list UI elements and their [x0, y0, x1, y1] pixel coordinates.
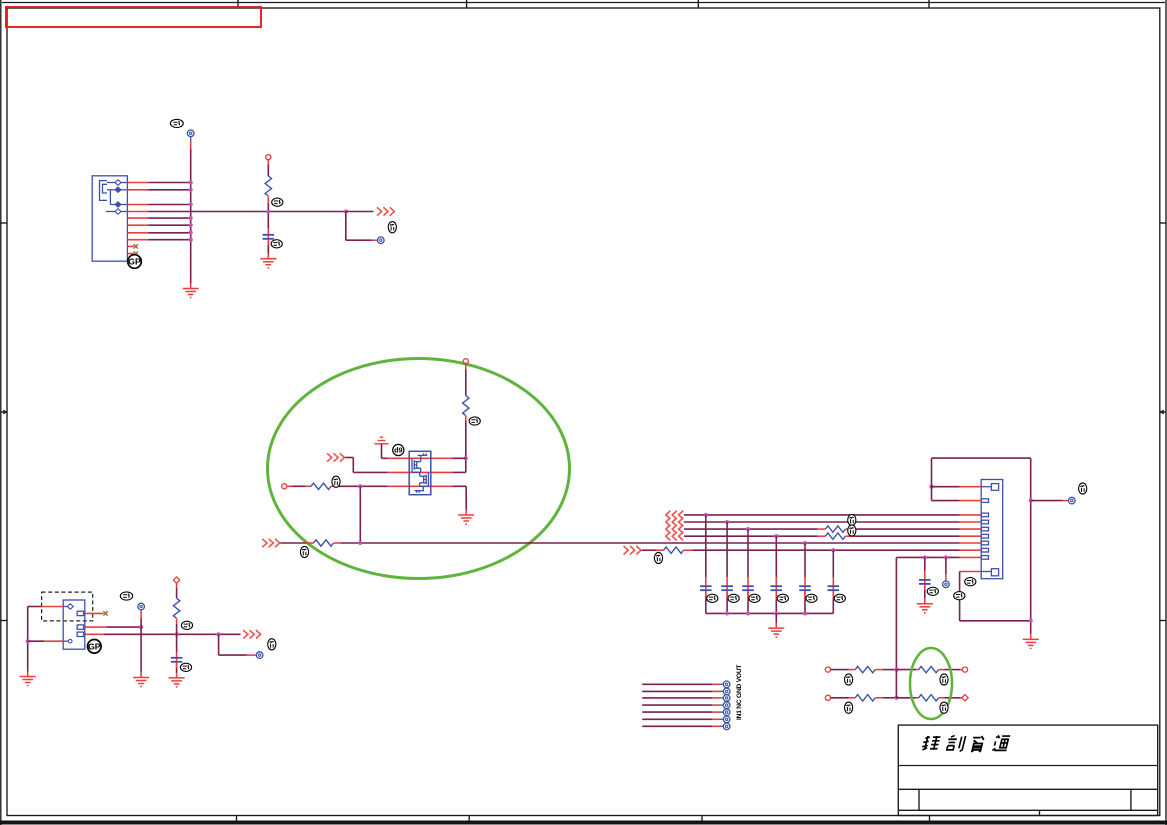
svg-text:IN1 NC GND VOUT: IN1 NC GND VOUT [736, 665, 743, 720]
svg-text:GP: GP [128, 257, 141, 267]
svg-text:GP: GP [88, 641, 101, 651]
svg-text:d9: d9 [394, 446, 402, 455]
